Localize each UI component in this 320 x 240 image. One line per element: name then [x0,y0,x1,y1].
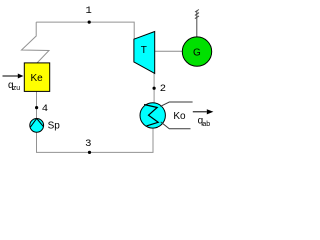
svg-text:1: 1 [86,5,92,17]
wire condenser to bottom to pump [37,129,154,153]
arrow q_ab [193,111,207,113]
wire pump to boiler [36,92,38,119]
condenser Ko [140,103,165,128]
svg-text:T: T [141,45,147,56]
shaft turbine-generator [155,50,183,52]
pump triangle symbol [30,119,43,128]
svg-text:4: 4 [42,103,48,115]
svg-text:Ko: Ko [173,111,186,122]
boiler Ke [24,63,49,92]
pump Sp [30,119,44,133]
condenser zigzag [144,105,158,126]
node 4 [35,106,38,109]
node 2 [153,87,156,90]
svg-text:3: 3 [85,138,91,150]
generator G [182,37,211,66]
cooling water bottom line [161,122,191,129]
cooling water top line [160,102,192,106]
wire turbine outlet to condenser [153,72,155,103]
svg-text:G: G [193,48,201,59]
node 1 [88,21,91,24]
turbine T [134,32,155,74]
svg-text:2: 2 [160,83,166,95]
generator frame symbol [196,11,198,38]
svg-text:Sp: Sp [48,120,61,131]
svg-text:zu: zu [13,85,21,92]
wire top from riser to turbine inlet [36,22,134,39]
arrow q_zu [3,75,19,77]
wire boiler riser zigzag [22,22,50,63]
svg-text:ab: ab [202,121,210,128]
svg-text:Ke: Ke [31,73,44,84]
node 3 [88,151,91,154]
